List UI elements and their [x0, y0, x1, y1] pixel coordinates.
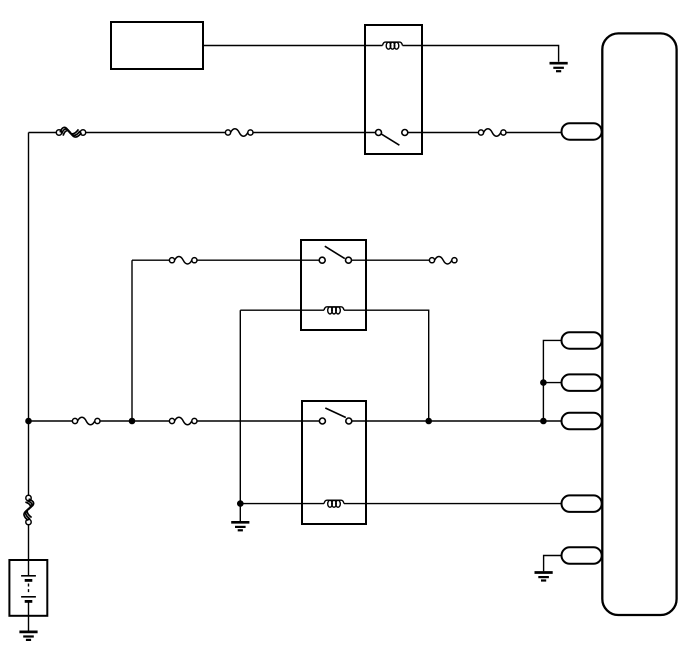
wire: battery negative to ground	[28, 601, 30, 630]
pin 2 oval	[562, 332, 602, 349]
battery cell plates	[21, 576, 36, 602]
wire: K3 coil left lead	[240, 503, 324, 505]
wire: vertical x=240 to ground node	[239, 310, 241, 521]
wire: main feed y=421 left of fuse F3	[29, 420, 73, 422]
pin 4 oval	[562, 413, 602, 430]
relay K1 switch blade	[381, 134, 399, 145]
relay K2 box	[301, 240, 366, 330]
fuse F6 (open end terminal)	[429, 256, 457, 264]
fuse F4	[169, 417, 197, 425]
fuse F2	[478, 129, 506, 137]
wire: K3 coil right lead to pin 5	[344, 503, 562, 505]
junction dot (left bus / main feed)	[25, 418, 32, 425]
relay K1 coil	[383, 42, 403, 49]
wire: bracket linking pins 2-3-4	[543, 340, 561, 421]
junction dot node C	[425, 418, 432, 425]
relay K3 coil	[324, 500, 344, 507]
relay K3 switch blade	[325, 408, 346, 418]
ignition switch box S1	[111, 22, 203, 69]
wire: K2 coil right lead, down to main wire	[344, 310, 429, 421]
wire: FL2 to battery	[28, 525, 30, 576]
junction dot node E	[540, 379, 547, 386]
wire: K1 coil to ground drop	[403, 46, 559, 62]
fuse F3	[72, 417, 100, 425]
wire: branch vertical x=132	[131, 260, 133, 421]
junction dot node F	[540, 418, 547, 425]
ground G2 (center)	[231, 522, 249, 530]
pin 1 oval	[562, 123, 602, 140]
pin 3 oval	[562, 374, 602, 391]
wire: y=260 run to fuse F5	[132, 259, 169, 261]
wire: FL1 to fuse F1	[86, 132, 226, 134]
pin 5 oval	[562, 495, 602, 512]
wire: fuse F2 to pin 1	[506, 132, 561, 134]
wire: left bus top run at y=132.5	[29, 132, 57, 134]
wire: left bus vertical	[28, 133, 30, 496]
relay K1 box	[365, 25, 422, 154]
module connector C1 (rounded body)	[602, 33, 676, 615]
wire: F3 to fuse F4	[100, 420, 169, 422]
wire: K3 switch to pin 4	[352, 420, 562, 422]
wire: K2 switch to fuse F6	[352, 259, 430, 261]
fusible link FL2 (vertical)	[24, 495, 34, 524]
fuse F1	[225, 129, 253, 137]
ground G3 (pin 6)	[535, 573, 553, 581]
wire: K2 coil left lead	[240, 309, 324, 311]
wire: pin 6 to ground	[544, 556, 562, 572]
pin 6 oval	[562, 547, 602, 564]
wire: stub to pin 3	[543, 382, 561, 384]
wire: K1 switch to fuse F2	[408, 132, 479, 134]
junction dot node B	[129, 418, 136, 425]
relay K2 switch contacts	[319, 257, 351, 263]
relay K1 switch contacts	[376, 130, 408, 136]
wire: F4 to relay K3 switch	[197, 420, 319, 422]
wire: box S1 to relay K1 coil	[203, 45, 383, 47]
fuse F5	[169, 256, 197, 264]
relay K3 box	[302, 401, 366, 524]
junction dot node D	[237, 500, 244, 507]
ground G1 (top right)	[550, 63, 568, 71]
battery BAT box	[9, 560, 47, 616]
relay K2 coil	[324, 307, 344, 314]
wire: fuse F1 to K1 switch	[253, 132, 376, 134]
relay K3 switch contacts	[319, 418, 351, 424]
wire: F5 to relay K2 switch	[197, 259, 319, 261]
relay K2 switch blade	[325, 246, 345, 258]
ground G4 (battery)	[19, 632, 37, 640]
fusible link FL1	[56, 127, 85, 137]
